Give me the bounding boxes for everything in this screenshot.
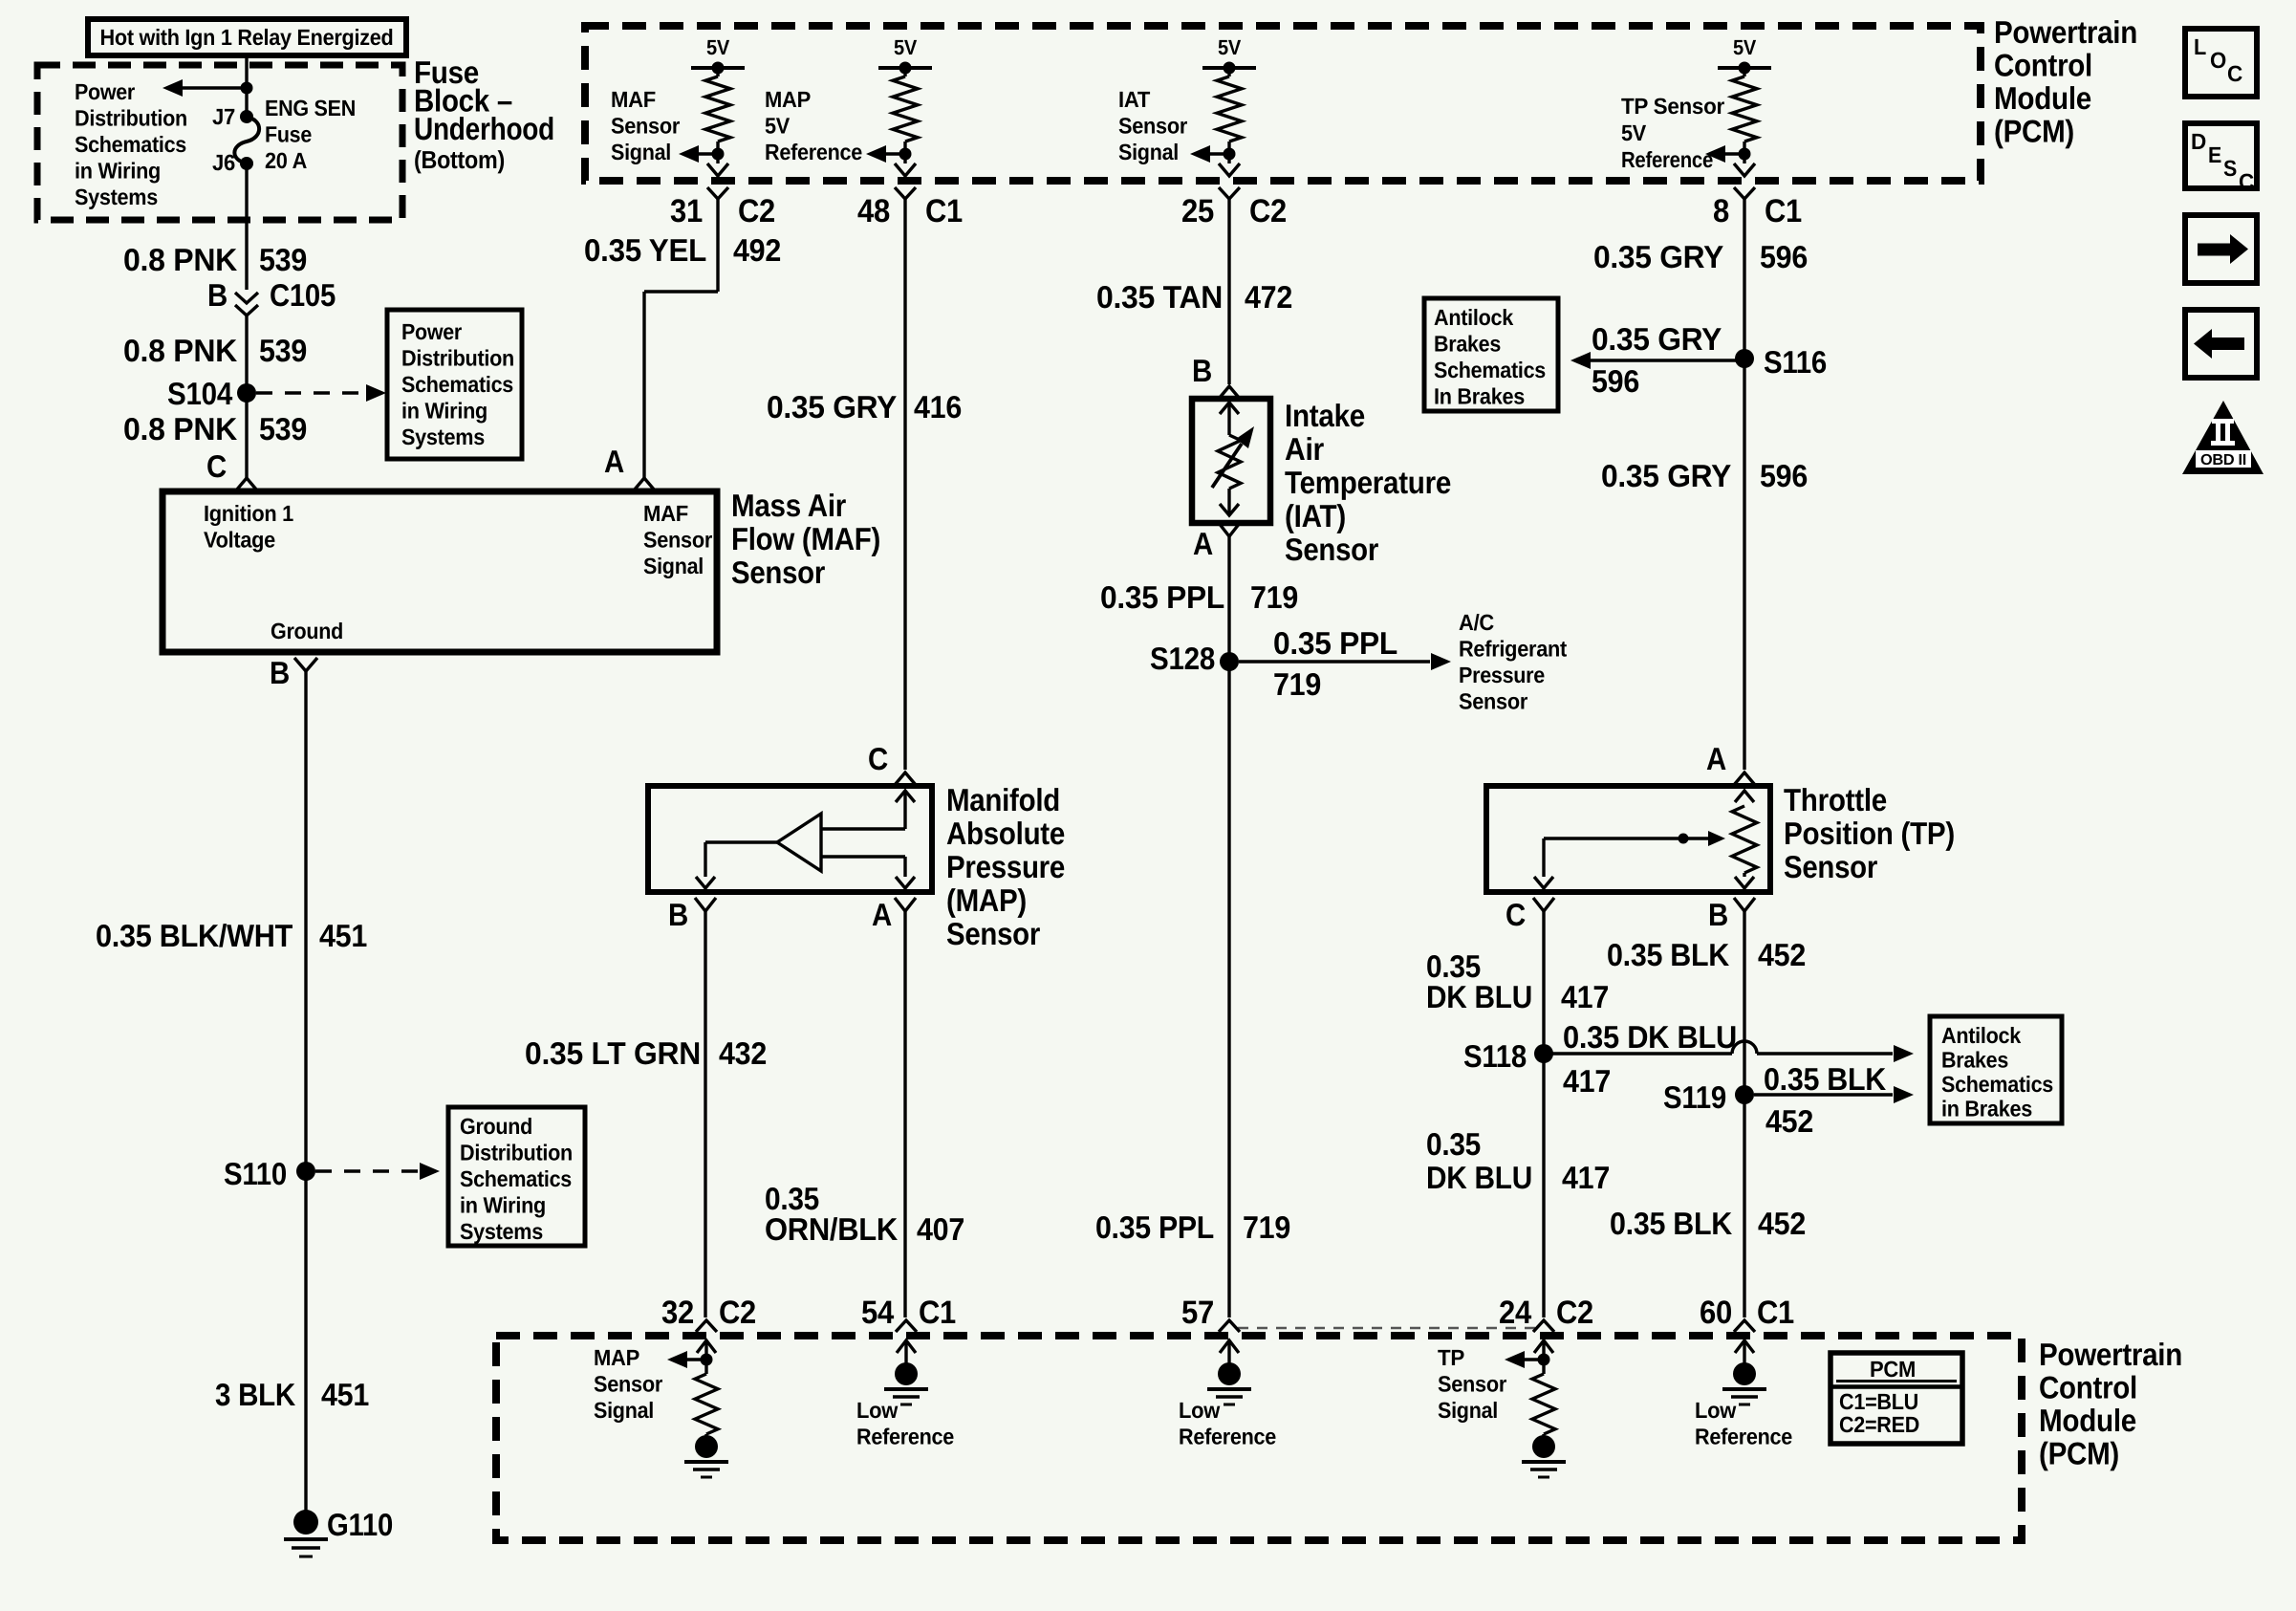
svg-text:Ignition 1: Ignition 1 bbox=[204, 501, 293, 526]
svg-text:Antilock: Antilock bbox=[1434, 305, 1514, 330]
svg-text:416: 416 bbox=[914, 389, 962, 425]
svg-text:Power: Power bbox=[75, 79, 135, 104]
svg-text:0.8 PNK: 0.8 PNK bbox=[123, 242, 237, 277]
svg-text:PCM: PCM bbox=[1870, 1357, 1916, 1382]
svg-text:Manifold: Manifold bbox=[946, 782, 1060, 817]
svg-text:TP: TP bbox=[1438, 1345, 1464, 1370]
svg-text:Control: Control bbox=[1994, 48, 2092, 83]
svg-text:Reference: Reference bbox=[1621, 147, 1713, 172]
svg-text:0.35 YEL: 0.35 YEL bbox=[584, 232, 706, 268]
svg-text:596: 596 bbox=[1592, 363, 1639, 399]
svg-text:Flow (MAF): Flow (MAF) bbox=[731, 521, 880, 556]
svg-text:24: 24 bbox=[1499, 1295, 1531, 1331]
svg-text:31: 31 bbox=[670, 193, 703, 229]
svg-text:Sensor: Sensor bbox=[1459, 689, 1527, 714]
svg-text:C: C bbox=[2227, 61, 2242, 86]
svg-text:Sensor: Sensor bbox=[1784, 849, 1877, 884]
svg-text:Brakes: Brakes bbox=[1941, 1048, 2008, 1073]
svg-text:C1: C1 bbox=[1765, 193, 1802, 229]
svg-text:Reference: Reference bbox=[1179, 1425, 1276, 1449]
svg-text:Reference: Reference bbox=[856, 1425, 954, 1449]
svg-text:A/C: A/C bbox=[1459, 610, 1494, 635]
svg-text:Fuse: Fuse bbox=[265, 122, 312, 147]
svg-text:Signal: Signal bbox=[1438, 1398, 1498, 1423]
svg-text:IAT: IAT bbox=[1118, 87, 1151, 112]
svg-text:407: 407 bbox=[917, 1211, 964, 1247]
svg-text:Sensor: Sensor bbox=[594, 1372, 662, 1397]
svg-text:0.35 PPL: 0.35 PPL bbox=[1095, 1209, 1214, 1245]
svg-text:0.35 GRY: 0.35 GRY bbox=[1593, 239, 1723, 274]
svg-text:Sensor: Sensor bbox=[1438, 1372, 1506, 1397]
svg-text:Voltage: Voltage bbox=[204, 528, 275, 553]
svg-text:0.35 TAN: 0.35 TAN bbox=[1096, 279, 1223, 315]
svg-text:Distribution: Distribution bbox=[460, 1141, 573, 1165]
svg-text:417: 417 bbox=[1563, 1063, 1611, 1099]
svg-text:Schematics: Schematics bbox=[1941, 1072, 2053, 1097]
svg-text:0.35 GRY: 0.35 GRY bbox=[1592, 321, 1722, 357]
svg-text:Air: Air bbox=[1285, 431, 1324, 467]
svg-text:DK BLU: DK BLU bbox=[1426, 1160, 1532, 1195]
svg-text:in Wiring: in Wiring bbox=[401, 399, 487, 424]
svg-text:ORN/BLK: ORN/BLK bbox=[765, 1211, 898, 1247]
svg-text:0.35 LT GRN: 0.35 LT GRN bbox=[525, 1035, 701, 1071]
svg-text:Antilock: Antilock bbox=[1941, 1023, 2022, 1048]
svg-text:Sensor: Sensor bbox=[1118, 114, 1187, 139]
svg-text:719: 719 bbox=[1273, 666, 1321, 702]
svg-text:5V: 5V bbox=[1218, 35, 1242, 59]
svg-text:0.35 BLK: 0.35 BLK bbox=[1607, 937, 1729, 972]
svg-text:5V: 5V bbox=[1733, 35, 1757, 59]
svg-text:0.35 PPL: 0.35 PPL bbox=[1273, 625, 1397, 661]
svg-text:Systems: Systems bbox=[75, 185, 158, 209]
svg-text:B: B bbox=[668, 897, 688, 932]
svg-text:Power: Power bbox=[401, 319, 462, 344]
svg-text:719: 719 bbox=[1250, 579, 1298, 615]
svg-text:Sensor: Sensor bbox=[731, 555, 825, 590]
svg-text:Mass Air: Mass Air bbox=[731, 488, 846, 523]
svg-text:C1: C1 bbox=[919, 1295, 956, 1331]
svg-text:Schematics: Schematics bbox=[75, 132, 186, 157]
svg-text:C: C bbox=[206, 448, 227, 484]
svg-text:S116: S116 bbox=[1764, 344, 1827, 380]
svg-text:C: C bbox=[2239, 169, 2254, 194]
svg-text:Systems: Systems bbox=[460, 1219, 543, 1244]
svg-text:Signal: Signal bbox=[643, 554, 704, 578]
svg-text:S118: S118 bbox=[1463, 1038, 1527, 1074]
svg-text:5V: 5V bbox=[1621, 120, 1647, 145]
svg-text:452: 452 bbox=[1758, 937, 1806, 972]
svg-text:D: D bbox=[2191, 129, 2206, 154]
svg-text:C1=BLU: C1=BLU bbox=[1839, 1389, 1918, 1414]
svg-text:C: C bbox=[1505, 897, 1526, 932]
svg-text:in Wiring: in Wiring bbox=[460, 1193, 546, 1218]
svg-text:In Brakes: In Brakes bbox=[1434, 384, 1525, 409]
svg-text:472: 472 bbox=[1245, 279, 1292, 315]
svg-text:S104: S104 bbox=[167, 376, 233, 411]
svg-text:B: B bbox=[207, 277, 227, 313]
svg-text:A: A bbox=[1193, 526, 1213, 561]
svg-text:60: 60 bbox=[1700, 1295, 1732, 1331]
svg-text:492: 492 bbox=[733, 232, 781, 268]
svg-text:in Brakes: in Brakes bbox=[1941, 1097, 2032, 1121]
svg-text:Control: Control bbox=[2039, 1370, 2137, 1405]
svg-text:Schematics: Schematics bbox=[1434, 358, 1546, 382]
svg-text:Brakes: Brakes bbox=[1434, 332, 1501, 357]
svg-text:0.35 DK BLU: 0.35 DK BLU bbox=[1563, 1019, 1737, 1055]
svg-text:54: 54 bbox=[861, 1295, 894, 1331]
svg-text:Absolute: Absolute bbox=[946, 816, 1065, 851]
svg-text:C2: C2 bbox=[1249, 193, 1287, 229]
svg-text:Reference: Reference bbox=[1695, 1425, 1792, 1449]
svg-text:E: E bbox=[2208, 142, 2221, 167]
svg-text:452: 452 bbox=[1765, 1103, 1813, 1139]
svg-text:5V: 5V bbox=[894, 35, 918, 59]
svg-text:Low: Low bbox=[1695, 1398, 1737, 1423]
svg-text:Distribution: Distribution bbox=[75, 106, 187, 131]
svg-text:0.35: 0.35 bbox=[1426, 1126, 1481, 1162]
svg-text:Powertrain: Powertrain bbox=[1994, 14, 2137, 50]
svg-text:C1: C1 bbox=[925, 193, 963, 229]
svg-text:Systems: Systems bbox=[401, 425, 485, 449]
svg-text:596: 596 bbox=[1760, 239, 1808, 274]
svg-text:5V: 5V bbox=[706, 35, 730, 59]
svg-text:Ground: Ground bbox=[460, 1114, 532, 1139]
svg-text:C2: C2 bbox=[719, 1295, 756, 1331]
svg-text:539: 539 bbox=[259, 242, 307, 277]
svg-text:S128: S128 bbox=[1150, 641, 1215, 676]
svg-text:5V: 5V bbox=[765, 114, 791, 139]
svg-text:Powertrain: Powertrain bbox=[2039, 1337, 2182, 1372]
svg-text:Pressure: Pressure bbox=[946, 849, 1065, 884]
svg-text:Low: Low bbox=[1179, 1398, 1221, 1423]
svg-text:C2: C2 bbox=[1556, 1295, 1593, 1331]
svg-text:0.35 PPL: 0.35 PPL bbox=[1100, 579, 1224, 615]
svg-text:A: A bbox=[604, 444, 624, 479]
svg-text:0.35 GRY: 0.35 GRY bbox=[767, 389, 897, 425]
svg-text:0.35 GRY: 0.35 GRY bbox=[1601, 458, 1731, 493]
svg-text:0.8 PNK: 0.8 PNK bbox=[123, 411, 237, 446]
svg-text:451: 451 bbox=[319, 918, 367, 953]
svg-text:Distribution: Distribution bbox=[401, 346, 514, 371]
svg-text:Position (TP): Position (TP) bbox=[1784, 816, 1955, 851]
svg-text:C105: C105 bbox=[270, 277, 336, 313]
svg-text:OBD II: OBD II bbox=[2200, 452, 2246, 468]
svg-text:(MAP): (MAP) bbox=[946, 882, 1027, 918]
svg-text:32: 32 bbox=[661, 1295, 694, 1331]
svg-text:MAF: MAF bbox=[611, 87, 656, 112]
svg-text:B: B bbox=[1708, 897, 1728, 932]
svg-text:MAP: MAP bbox=[765, 87, 811, 112]
svg-text:Signal: Signal bbox=[1118, 140, 1179, 164]
svg-text:20 A: 20 A bbox=[265, 148, 307, 173]
svg-text:452: 452 bbox=[1758, 1206, 1806, 1241]
svg-text:417: 417 bbox=[1562, 1160, 1610, 1195]
svg-text:596: 596 bbox=[1760, 458, 1808, 493]
svg-text:O: O bbox=[2210, 48, 2226, 73]
svg-text:MAP: MAP bbox=[594, 1345, 639, 1370]
svg-text:S: S bbox=[2223, 156, 2237, 181]
svg-text:A: A bbox=[872, 897, 892, 932]
svg-text:S119: S119 bbox=[1663, 1079, 1726, 1115]
svg-text:(PCM): (PCM) bbox=[1994, 114, 2074, 149]
svg-text:DK BLU: DK BLU bbox=[1426, 979, 1532, 1014]
svg-text:3 BLK: 3 BLK bbox=[215, 1377, 295, 1412]
svg-text:Ground: Ground bbox=[271, 619, 343, 643]
svg-text:L: L bbox=[2194, 34, 2206, 59]
svg-text:Reference: Reference bbox=[765, 140, 862, 164]
svg-text:Refrigerant: Refrigerant bbox=[1459, 637, 1567, 662]
svg-text:A: A bbox=[1706, 741, 1726, 776]
svg-text:Temperature: Temperature bbox=[1285, 465, 1451, 500]
svg-text:J7: J7 bbox=[212, 104, 235, 129]
svg-text:B: B bbox=[270, 655, 290, 690]
svg-text:Sensor: Sensor bbox=[1285, 532, 1378, 567]
svg-text:C2: C2 bbox=[738, 193, 775, 229]
svg-text:0.8 PNK: 0.8 PNK bbox=[123, 333, 237, 368]
svg-text:G110: G110 bbox=[327, 1507, 393, 1542]
svg-text:TP Sensor: TP Sensor bbox=[1621, 94, 1724, 119]
svg-text:B: B bbox=[1192, 353, 1212, 388]
svg-text:Hot with Ign 1 Relay Energized: Hot with Ign 1 Relay Energized bbox=[100, 25, 394, 50]
svg-text:in Wiring: in Wiring bbox=[75, 159, 161, 184]
svg-text:(Bottom): (Bottom) bbox=[414, 145, 505, 174]
svg-text:Throttle: Throttle bbox=[1784, 782, 1887, 817]
svg-text:719: 719 bbox=[1243, 1209, 1290, 1245]
svg-text:Pressure: Pressure bbox=[1459, 663, 1545, 687]
svg-text:ENG SEN: ENG SEN bbox=[265, 96, 356, 120]
svg-text:Signal: Signal bbox=[594, 1398, 654, 1423]
svg-text:451: 451 bbox=[321, 1377, 369, 1412]
svg-text:0.35 BLK: 0.35 BLK bbox=[1764, 1061, 1886, 1097]
svg-text:Low: Low bbox=[856, 1398, 899, 1423]
svg-text:(IAT): (IAT) bbox=[1285, 498, 1346, 533]
svg-text:Schematics: Schematics bbox=[460, 1166, 572, 1191]
svg-text:Schematics: Schematics bbox=[401, 372, 513, 397]
svg-text:Sensor: Sensor bbox=[946, 916, 1040, 951]
svg-text:57: 57 bbox=[1181, 1295, 1214, 1331]
svg-text:539: 539 bbox=[259, 333, 307, 368]
svg-text:Module: Module bbox=[1994, 80, 2091, 116]
svg-text:Sensor: Sensor bbox=[643, 528, 712, 553]
svg-text:48: 48 bbox=[857, 193, 890, 229]
svg-text:417: 417 bbox=[1561, 979, 1609, 1014]
svg-text:Underhood: Underhood bbox=[414, 111, 554, 146]
svg-text:S110: S110 bbox=[224, 1156, 287, 1191]
svg-text:MAF: MAF bbox=[643, 501, 688, 526]
svg-text:C: C bbox=[868, 741, 888, 776]
svg-text:8: 8 bbox=[1713, 193, 1729, 229]
svg-text:J6: J6 bbox=[212, 150, 235, 175]
svg-text:539: 539 bbox=[259, 411, 307, 446]
svg-text:0.35 BLK/WHT: 0.35 BLK/WHT bbox=[96, 918, 292, 953]
svg-text:432: 432 bbox=[719, 1035, 767, 1071]
svg-text:C2=RED: C2=RED bbox=[1839, 1412, 1919, 1437]
svg-text:0.35 BLK: 0.35 BLK bbox=[1610, 1206, 1732, 1241]
svg-text:C1: C1 bbox=[1757, 1295, 1794, 1331]
svg-text:Signal: Signal bbox=[611, 140, 671, 164]
svg-text:Module: Module bbox=[2039, 1403, 2136, 1438]
svg-text:Intake: Intake bbox=[1285, 398, 1365, 433]
svg-text:Sensor: Sensor bbox=[611, 114, 680, 139]
svg-text:(PCM): (PCM) bbox=[2039, 1436, 2119, 1471]
svg-text:25: 25 bbox=[1181, 193, 1214, 229]
